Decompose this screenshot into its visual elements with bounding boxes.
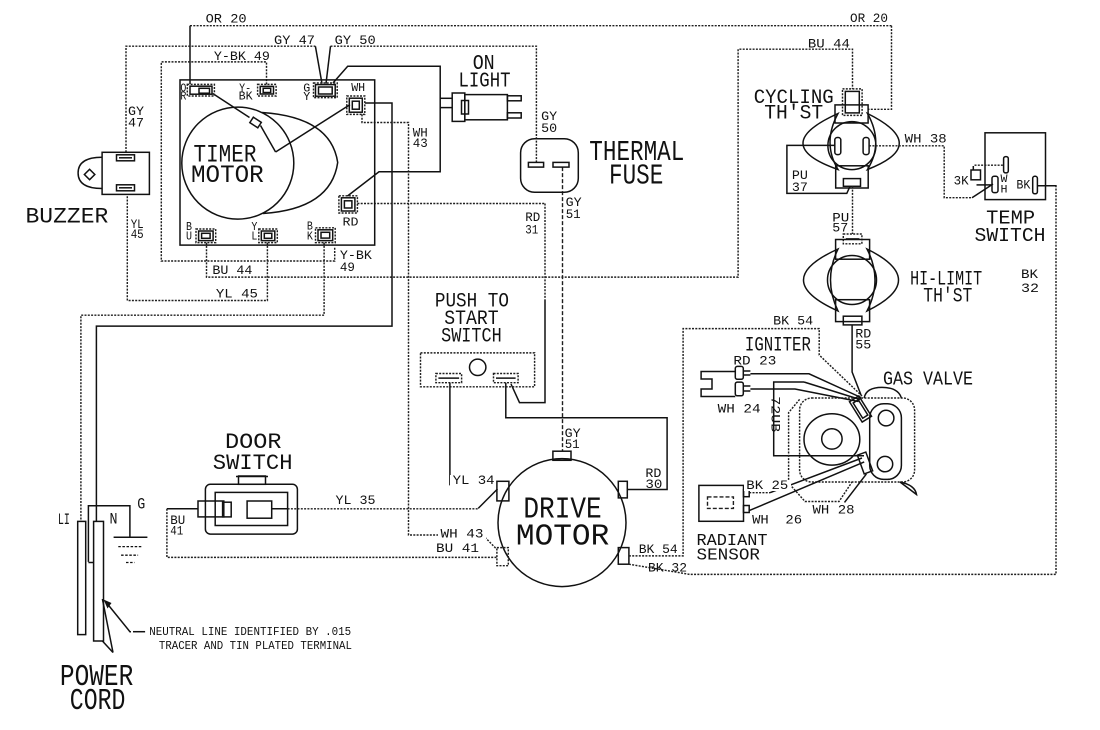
door switch outer body: [205, 484, 297, 534]
buzzer dome hole: [84, 169, 94, 179]
drive motor circle: [498, 459, 626, 587]
power cord L1 prong: [78, 521, 86, 634]
svg-text:BK 54: BK 54: [639, 542, 678, 557]
svg-text:BK 25: BK 25: [746, 478, 788, 493]
wire Y-BK 49 (timer Y-BK terminal loop to BK terminal): [161, 62, 334, 261]
svg-text:YL 35: YL 35: [336, 493, 376, 508]
timer terminal BK: [316, 228, 336, 243]
svg-text:BK 32: BK 32: [648, 561, 687, 576]
igniter pin bottom: [735, 382, 743, 396]
cycling thermostat disc: [828, 122, 876, 170]
svg-text:NEUTRAL LINE IDENTIFIED BY .01: NEUTRAL LINE IDENTIFIED BY .015: [149, 625, 351, 639]
temp switch upper contact: [1004, 157, 1009, 173]
wire BK 25 (sensor to gas valve): [749, 492, 770, 494]
svg-text:WH 26: WH 26: [752, 513, 802, 528]
svg-text:H: H: [1001, 185, 1008, 197]
power cord N prong: [94, 521, 104, 641]
ground symbol: [114, 536, 148, 538]
gas valve coil outer: [804, 414, 860, 465]
buzzer terminal bottom: [117, 185, 135, 191]
svg-text:BK: BK: [1021, 267, 1038, 282]
wire stub to ON LIGHT connector upper: [440, 97, 452, 99]
svg-text:WH 38: WH 38: [905, 132, 947, 147]
temp switch 3K connector: [971, 170, 981, 180]
timer terminal G-Y: [314, 83, 338, 98]
svg-text:BU 44: BU 44: [808, 37, 850, 52]
cycling thermostat top collar: [835, 105, 868, 123]
hi-limit top collar: [836, 240, 870, 260]
power cord neutral terminal box: [88, 506, 129, 562]
svg-text:30: 30: [645, 477, 662, 492]
cycling thermostat bottom tab: [843, 179, 860, 187]
wire RD 23 from igniter to gas valve: [750, 374, 861, 398]
wire label WH 43 at motor: [438, 528, 486, 539]
svg-text:41: 41: [170, 524, 183, 539]
neutral note arrow: [104, 600, 112, 609]
wire WH 43 (timer WH terminal to drive motor): [362, 114, 497, 549]
temp switch box: [985, 133, 1046, 200]
wire RD 30 (push-to-start to drive motor): [506, 383, 667, 490]
wire PU 37: [787, 145, 850, 193]
wire GY 51 (thermal fuse to drive motor): [562, 167, 564, 451]
temp switch 3K dotted link: [975, 164, 1004, 166]
temp switch lower left contact: [992, 176, 998, 192]
svg-text:BU 44: BU 44: [212, 263, 252, 278]
gas valve top spade terminal: [849, 396, 871, 422]
svg-text:Y: Y: [303, 90, 310, 104]
svg-text:SENSOR: SENSOR: [697, 547, 761, 566]
door switch button: [239, 476, 266, 484]
buzzer body: [102, 152, 149, 194]
svg-text:L: L: [251, 230, 257, 244]
svg-text:BUZZER: BUZZER: [26, 205, 109, 230]
svg-text:G: G: [137, 496, 145, 514]
wire RD 31 (timer RD terminal to push-to-start switch): [357, 203, 545, 205]
svg-text:YL 45: YL 45: [216, 287, 258, 302]
cycling thermostat right contact: [863, 138, 869, 155]
gas valve mounting hole top: [878, 410, 894, 426]
push to start left terminal: [436, 374, 462, 383]
wire neutral line (timer WH terminal to power cord N): [96, 103, 392, 521]
thermal fuse left terminal: [528, 162, 543, 167]
svg-text:CORD: CORD: [70, 684, 126, 719]
wire WH 38 (cycling to temp switch): [869, 146, 972, 198]
drive motor terminal RD: [618, 481, 627, 498]
svg-text:OR 20: OR 20: [206, 12, 247, 27]
push to start button: [470, 359, 486, 375]
wire BU 41 (door switch to drive motor): [167, 508, 198, 510]
wire PU 57 (cycling to hi-limit): [852, 186, 854, 234]
timer terminal OR: [187, 84, 214, 96]
timer terminal WH: [347, 96, 365, 114]
svg-text:R: R: [180, 90, 186, 104]
svg-text:49: 49: [340, 260, 355, 275]
thermal fuse right terminal: [553, 162, 569, 167]
gas valve mounting plate: [870, 404, 902, 480]
wire BU 44 (timer BU terminal to cycling thermostat): [207, 49, 853, 277]
push to start right terminal: [494, 374, 519, 383]
svg-text:N: N: [110, 511, 118, 529]
hi-limit left leaf: [804, 249, 839, 311]
wire WH 26 (sensor to gas valve): [749, 462, 864, 511]
gas valve rear bottom bump: [900, 482, 917, 495]
svg-text:50: 50: [541, 121, 557, 136]
timer terminal RD: [339, 196, 358, 213]
wire BK 54 (drive motor to gas valve): [629, 329, 862, 556]
temp switch 3K to WH contact: [977, 184, 993, 186]
igniter pin top: [735, 366, 743, 379]
svg-text:Y-BK 49: Y-BK 49: [214, 49, 270, 64]
gas valve body: [800, 398, 915, 482]
svg-text:GAS VALVE: GAS VALVE: [883, 369, 973, 391]
on light prong top: [507, 96, 521, 101]
timer terminal Y-BK: [258, 84, 277, 96]
on light body: [465, 95, 508, 120]
wire WH 24 from igniter to gas valve: [750, 389, 858, 402]
hi-limit right leaf: [867, 249, 899, 311]
svg-text:MOTOR: MOTOR: [191, 161, 264, 190]
svg-text:37: 37: [792, 180, 808, 195]
wire YL 35 (door switch to drive motor): [272, 508, 288, 510]
svg-text:BU 41: BU 41: [436, 541, 479, 556]
push to start switch box: [421, 353, 535, 387]
hi-limit bottom terminal: [843, 316, 862, 325]
svg-text:43: 43: [413, 136, 428, 151]
timer contact diamond: [250, 117, 262, 128]
timer terminal BU: [196, 229, 216, 243]
svg-text:BK: BK: [1016, 178, 1030, 193]
wire OR 20 drop to timer OR terminal: [189, 26, 191, 84]
wire OR 20 (top horizontal): [190, 25, 892, 27]
drive motor terminal YL: [497, 481, 509, 501]
radiant sensor terminal WH: [744, 506, 750, 513]
wire label BK 25: [744, 480, 791, 491]
hi-limit top terminal: [843, 234, 862, 244]
wire BK from temp switch: [1037, 185, 1056, 187]
svg-text:YL 34: YL 34: [453, 473, 495, 488]
drive motor terminal BK: [618, 548, 629, 565]
svg-text:32: 32: [1021, 281, 1039, 296]
svg-text:TH'ST: TH'ST: [923, 286, 972, 309]
svg-text:BK 54: BK 54: [773, 314, 813, 329]
wire GY 47 (buzzer to timer G terminal): [126, 46, 315, 152]
svg-text:SWITCH: SWITCH: [441, 326, 502, 349]
svg-text:51: 51: [566, 207, 581, 222]
svg-text:45: 45: [131, 227, 144, 242]
svg-text:U: U: [186, 230, 192, 244]
timer motor circle: [182, 107, 294, 219]
timer contact arm from OR terminal: [213, 94, 250, 118]
door switch contact: [247, 501, 272, 518]
wire YL 34 (push-to-start to drive motor): [449, 383, 451, 486]
svg-text:51: 51: [565, 437, 580, 452]
buzzer sounder dome: [78, 157, 102, 188]
radiant sensor body: [699, 485, 744, 521]
gas valve rear top bump: [864, 387, 901, 398]
cycling thermostat bottom collar: [836, 166, 869, 188]
wire YL 45 (timer YL terminal to buzzer): [127, 194, 267, 300]
gas valve mounting hole bottom: [877, 456, 892, 471]
wire BU 27 (gas valve coil loop): [774, 382, 864, 456]
door switch plug: [198, 501, 224, 517]
drive motor terminal GY51 top: [553, 451, 571, 460]
wire BK 32 (drive motor to temp switch): [629, 186, 1056, 575]
svg-text:LI: LI: [58, 511, 70, 529]
svg-text:RD: RD: [343, 216, 359, 230]
timer box outline: [180, 80, 375, 245]
svg-text:GY 47: GY 47: [274, 33, 315, 48]
drive motor terminal WH-BU: [497, 548, 508, 566]
wire to ON LIGHT from timer G-Y terminal: [333, 66, 440, 196]
power cord fold: [102, 599, 113, 653]
radiant sensor window: [708, 497, 734, 509]
svg-text:TRACER AND TIN PLATED TERMINAL: TRACER AND TIN PLATED TERMINAL: [159, 639, 352, 653]
thermal fuse body: [521, 139, 579, 193]
timer cam lobe: [262, 113, 338, 214]
wire label YL 34: [450, 475, 497, 486]
svg-text:MOTOR: MOTOR: [516, 520, 609, 555]
cycling thermostat left contact: [835, 138, 841, 155]
svg-text:47: 47: [128, 116, 144, 131]
cycling thermostat right leaf: [868, 114, 900, 170]
on light connector: [452, 93, 465, 121]
wire label BK 54 at motor: [636, 544, 680, 555]
svg-text:3K: 3K: [954, 174, 969, 189]
svg-text:WH 28: WH 28: [813, 503, 855, 518]
wire L1 line (timer BK terminal to power cord L1): [81, 243, 324, 522]
svg-text:WH: WH: [351, 81, 365, 95]
svg-text:GY 50: GY 50: [335, 33, 376, 48]
on light prong bottom: [507, 113, 521, 118]
svg-text:WH 24: WH 24: [718, 402, 761, 417]
svg-text:31: 31: [525, 223, 538, 238]
svg-text:K: K: [307, 230, 314, 244]
svg-text:SWITCH: SWITCH: [975, 225, 1046, 247]
svg-text:72UB: 72UB: [768, 396, 783, 432]
svg-text:OR 20: OR 20: [850, 11, 888, 26]
svg-text:SWITCH: SWITCH: [213, 451, 293, 476]
door switch inner body: [215, 492, 287, 525]
timer contact arm to WH terminal: [276, 105, 350, 152]
wire OR 20 drop to cycling thermostat: [868, 26, 891, 110]
svg-text:FUSE: FUSE: [609, 160, 663, 193]
cycling thermostat top terminal: [843, 89, 863, 116]
temp switch right contact: [1033, 176, 1038, 194]
svg-text:BK: BK: [239, 90, 254, 104]
timer terminal YL: [259, 229, 278, 243]
svg-text:LIGHT: LIGHT: [459, 71, 511, 94]
svg-text:TH'ST: TH'ST: [764, 103, 823, 126]
wire WH 28 stub from gas valve: [845, 474, 867, 503]
gas valve solenoid housing: [789, 399, 852, 501]
wire RD 55 (hi-limit to gas valve): [852, 325, 861, 395]
wire GY 50 (timer Y terminal to thermal fuse): [326, 46, 331, 83]
buzzer terminal top: [117, 155, 135, 161]
wire stub to ON LIGHT connector lower: [440, 107, 452, 109]
gas valve coil inner: [822, 429, 842, 449]
hi-limit bottom collar: [836, 300, 870, 322]
svg-text:57: 57: [832, 221, 848, 236]
svg-text:WH 43: WH 43: [441, 527, 484, 542]
gas valve bottom spade terminal: [857, 452, 872, 474]
radiant sensor terminal BK: [744, 490, 750, 497]
cycling thermostat left leaf: [803, 114, 838, 170]
igniter plug fork: [701, 372, 735, 397]
hi-limit disc: [828, 256, 877, 305]
svg-text:55: 55: [855, 338, 871, 353]
wire label YL 35: [333, 495, 378, 506]
